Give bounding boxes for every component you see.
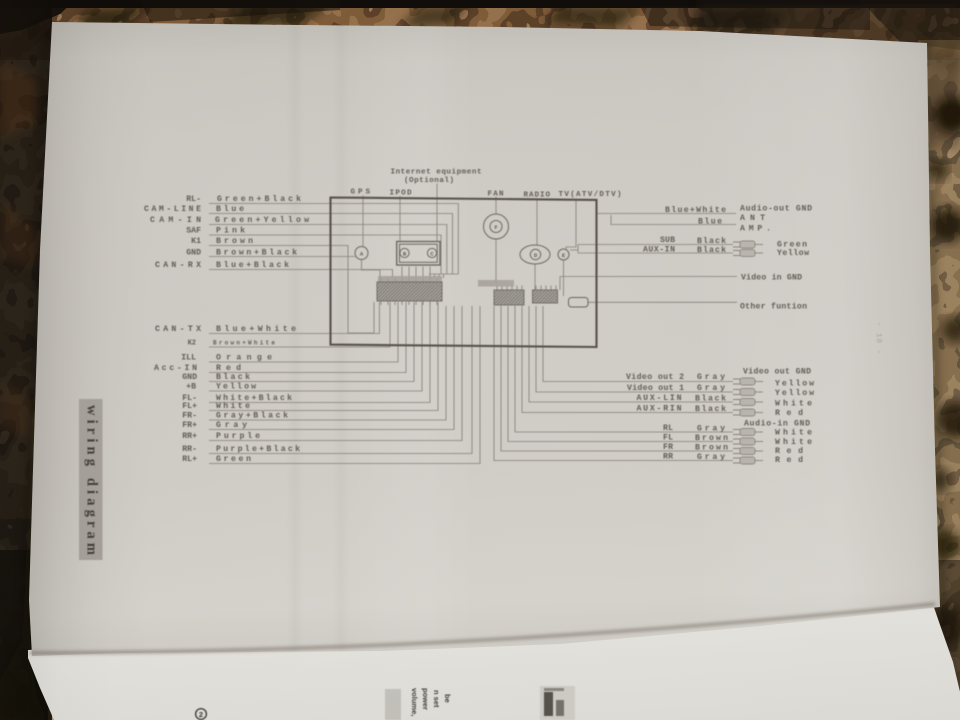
svg-text:Gray: Gray — [697, 373, 725, 382]
svg-text:RR: RR — [663, 453, 673, 462]
svg-text:FL+: FL+ — [182, 402, 197, 411]
svg-text:CAM-IN: CAM-IN — [150, 216, 201, 225]
svg-text:White: White — [775, 399, 812, 409]
wire FL+ — [209, 302, 438, 411]
svg-text:volume,: volume, — [410, 688, 419, 716]
jack FR — [733, 447, 763, 454]
jack RL — [733, 428, 763, 435]
wire E down — [563, 260, 565, 296]
svg-text:Black: Black — [697, 236, 726, 246]
lower page: circled 2 — [196, 709, 207, 720]
wire CAM-IN — [209, 225, 447, 275]
svg-text:wiring diagram: wiring diagram — [84, 405, 100, 555]
op-unit U2 (B/C sockets) — [397, 242, 440, 266]
wire Video out 2 — [543, 306, 733, 382]
connector CN2 shading bar — [478, 280, 514, 287]
svg-text:be: be — [443, 694, 452, 703]
svg-text:RL-: RL- — [186, 195, 201, 204]
svg-text:Brown: Brown — [216, 237, 253, 246]
svg-text:TV(ATV/DTV): TV(ATV/DTV) — [559, 191, 622, 199]
leader IPOD — [399, 196, 401, 241]
svg-text:Blue: Blue — [698, 217, 722, 227]
svg-text:Brown+Black: Brown+Black — [216, 248, 297, 258]
connector CN1 shading bar — [378, 276, 442, 283]
svg-text:Green+Black: Green+Black — [217, 194, 301, 204]
wire Video out 1 — [536, 306, 733, 392]
svg-text:Purple: Purple — [216, 431, 260, 441]
svg-text:Black: Black — [695, 394, 726, 404]
svg-text:Acc-IN: Acc-IN — [154, 364, 197, 373]
svg-text:E: E — [562, 252, 566, 259]
wire D to CN3 — [534, 264, 536, 290]
wire FR- — [209, 306, 446, 420]
wire AMP (Blue) — [611, 215, 736, 225]
svg-text:(Optional): (Optional) — [404, 177, 454, 185]
junction bus into CN1 top — [429, 274, 458, 278]
wire FL — [508, 306, 733, 442]
svg-text:Yellow: Yellow — [216, 382, 256, 392]
svg-text:Purple+Black: Purple+Black — [216, 444, 300, 454]
svg-text:Black: Black — [697, 245, 726, 255]
wire SUB — [570, 245, 733, 254]
svg-text:Yellow: Yellow — [777, 248, 809, 258]
connector RJ (other function socket) — [569, 298, 589, 308]
pins CN1 bottom — [381, 301, 437, 305]
svg-text:FL: FL — [663, 434, 673, 443]
wire AUX-LIN — [529, 306, 733, 402]
svg-text:Video in GND: Video in GND — [741, 273, 802, 283]
leader RADIO — [536, 198, 538, 245]
svg-text:K2: K2 — [188, 340, 196, 348]
svg-text:FR+: FR+ — [182, 421, 197, 430]
wire CAN-RX — [209, 270, 393, 278]
connector CN3 — [533, 290, 558, 303]
svg-text:AUX-RIN: AUX-RIN — [637, 405, 682, 414]
wire AUX-RIN — [522, 306, 733, 413]
jack AUX-IN — [733, 249, 763, 256]
svg-text:Gray: Gray — [216, 421, 247, 430]
wire FR — [501, 306, 733, 451]
svg-text:FAN: FAN — [488, 191, 504, 199]
wire RL+ — [209, 306, 480, 464]
svg-text:FR-: FR- — [182, 412, 197, 421]
svg-text:power: power — [421, 688, 430, 710]
wire RL- — [209, 204, 458, 275]
svg-text:Video out 1: Video out 1 — [627, 383, 684, 393]
svg-text:White: White — [775, 437, 812, 447]
svg-text:RL+: RL+ — [182, 455, 197, 464]
svg-text:Black: Black — [216, 372, 250, 382]
wire +B — [209, 302, 422, 391]
svg-text:Gray+Black: Gray+Black — [216, 411, 288, 421]
svg-text:n set: n set — [432, 690, 441, 708]
svg-text:C: C — [430, 251, 434, 258]
svg-text:SUB: SUB — [660, 236, 675, 245]
svg-text:Red: Red — [775, 408, 803, 418]
wire RR- — [209, 306, 472, 454]
svg-text:Internet equipment: Internet equipment — [391, 169, 482, 177]
wire Video in GND — [560, 277, 737, 291]
svg-text:Yellow: Yellow — [775, 379, 814, 389]
svg-text:ILL: ILL — [181, 354, 196, 363]
svg-text:FR: FR — [663, 443, 673, 452]
wire F to CN2 — [495, 239, 497, 283]
svg-text:K1: K1 — [191, 237, 201, 246]
svg-text:GND: GND — [182, 373, 197, 382]
svg-text:Red: Red — [216, 363, 241, 373]
svg-text:Audio-out GND: Audio-out GND — [740, 204, 812, 214]
leader Internet equipment — [436, 184, 438, 242]
svg-text:Audio-in GND: Audio-in GND — [744, 419, 810, 429]
regional tints — [0, 0, 960, 60]
wire FL- — [209, 302, 430, 403]
wire CAN-TX — [209, 302, 379, 334]
svg-text:Black: Black — [695, 404, 726, 414]
svg-text:Blue+White: Blue+White — [665, 205, 726, 215]
wire RL — [515, 306, 733, 432]
connector CN2 — [494, 290, 524, 305]
jack AUX-RIN — [733, 409, 763, 416]
svg-text:GND: GND — [186, 249, 201, 258]
jack AUX-LIN — [733, 398, 763, 405]
jack RR — [733, 457, 763, 464]
wire Other funtion — [588, 301, 737, 303]
svg-text:Red: Red — [775, 446, 803, 456]
svg-text:A: A — [360, 251, 364, 258]
svg-text:Orange: Orange — [216, 354, 272, 363]
svg-text:RL: RL — [663, 424, 673, 433]
svg-text:B: B — [403, 251, 407, 258]
sidebar tab "wiring diagram" — [79, 399, 103, 560]
svg-text:AUX-LIN: AUX-LIN — [637, 394, 682, 403]
jack FL — [733, 438, 763, 445]
svg-text:Green+Yellow: Green+Yellow — [215, 215, 309, 225]
jack Video out 2 — [733, 378, 763, 385]
pins CN3 top — [536, 286, 556, 291]
wire RR+ — [209, 306, 462, 441]
lower page: highlight tab — [385, 689, 401, 720]
leader GPS — [362, 196, 364, 247]
wire CAM-LINE — [209, 214, 453, 275]
svg-text:Red: Red — [775, 455, 803, 465]
wire ANT (Blue+White) — [597, 213, 736, 215]
svg-text:Brown+White: Brown+White — [213, 340, 275, 347]
svg-text:CAN-RX: CAN-RX — [155, 261, 201, 270]
svg-text:GPS: GPS — [351, 189, 371, 197]
lower page: small figure — [540, 686, 575, 720]
svg-text:RR+: RR+ — [182, 432, 197, 441]
RCA jacks — [733, 241, 763, 464]
wire K1 — [209, 246, 374, 334]
svg-text:Green: Green — [216, 455, 251, 464]
svg-text:Pink: Pink — [216, 226, 245, 236]
wires U2 (B/C) to CN1 — [402, 267, 430, 278]
svg-text:D: D — [534, 252, 538, 259]
svg-text:2: 2 — [199, 710, 203, 719]
svg-text:Video out GND: Video out GND — [743, 367, 811, 377]
svg-text:Other funtion: Other funtion — [740, 302, 807, 312]
wire FR+ — [209, 306, 454, 430]
svg-text:AUX-IN: AUX-IN — [643, 246, 675, 255]
page crease shadow — [30, 604, 935, 653]
wire K2 — [209, 302, 390, 347]
connector CN1 — [377, 282, 442, 301]
main unit box — [331, 198, 597, 348]
svg-text:IPOD: IPOD — [390, 190, 412, 198]
wire SAF — [209, 235, 441, 274]
node E (TV socket) — [558, 249, 569, 260]
pins CN1 top — [381, 278, 437, 283]
jack SUB — [733, 241, 763, 248]
wire GND2 — [209, 302, 414, 382]
svg-text:RADIO: RADIO — [524, 192, 551, 200]
svg-text:SAF: SAF — [186, 227, 201, 236]
svg-text:Blue: Blue — [216, 204, 244, 214]
shadow cast by page on fabric — [0, 18, 49, 720]
pins CN2 top — [497, 286, 522, 291]
svg-text:F: F — [494, 224, 498, 231]
svg-text:Yellow: Yellow — [775, 388, 814, 398]
node D (radio socket) — [520, 245, 550, 264]
wire RR — [494, 306, 733, 461]
svg-text:+B: +B — [186, 383, 196, 392]
svg-text:CAM-LINE: CAM-LINE — [144, 205, 201, 214]
wire Acc-IN — [209, 302, 406, 373]
leader FAN — [495, 197, 497, 215]
node A — [355, 247, 368, 260]
wire GND (to node A) — [209, 256, 355, 258]
svg-text:Blue+Black: Blue+Black — [216, 260, 289, 270]
svg-text:Blue+White: Blue+White — [216, 324, 296, 334]
jack Video out 1 — [733, 388, 763, 395]
wire AUX-IN — [578, 252, 733, 254]
svg-text:ANT: ANT — [740, 214, 765, 223]
svg-text:White: White — [775, 428, 812, 438]
leader TV — [566, 199, 576, 249]
svg-text:- 18 -: - 18 - — [874, 322, 882, 354]
node F (fan socket) — [484, 214, 509, 239]
svg-text:RR-: RR- — [182, 445, 197, 454]
wire ILL — [209, 302, 398, 362]
wire node A to connector CN1 — [362, 260, 381, 282]
svg-text:AMP.: AMP. — [740, 225, 771, 234]
svg-text:CAN-TX: CAN-TX — [155, 325, 201, 334]
svg-text:Video out 2: Video out 2 — [626, 372, 684, 382]
